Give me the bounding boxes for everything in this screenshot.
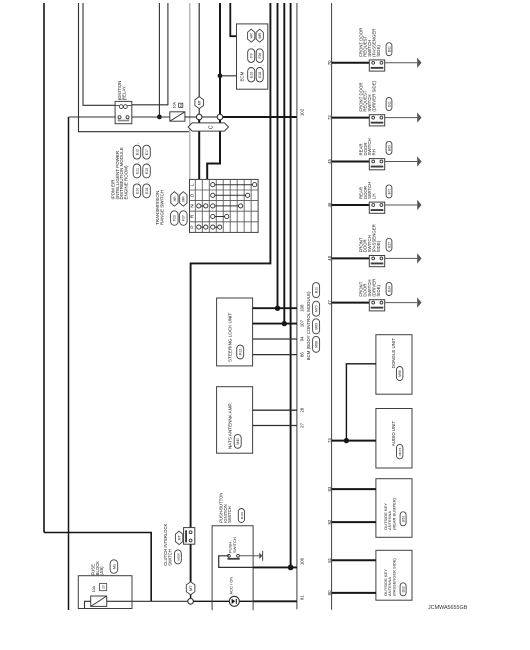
- svg-text:45: 45: [327, 159, 332, 164]
- dongle unit box: [376, 335, 412, 395]
- connector banner C: [188, 123, 228, 131]
- svg-text:SIDE): SIDE): [376, 45, 381, 57]
- svg-text:56: 56: [179, 103, 183, 107]
- outside key antenna (rear bumper) box: [376, 479, 412, 538]
- svg-text:27: 27: [300, 423, 305, 428]
- svg-text:F27: F27: [182, 215, 186, 221]
- wire - left feed bus from top: [43, 3, 45, 533]
- svg-text:B34: B34: [387, 286, 391, 292]
- push-button ignition switch box (open bottom): [212, 526, 253, 611]
- wire - BCM 74 to audio unit: [332, 440, 376, 442]
- IPDM connector E10: [133, 184, 141, 198]
- svg-text:82: 82: [327, 519, 332, 524]
- svg-text:80: 80: [327, 590, 332, 595]
- svg-text:L: L: [190, 183, 195, 186]
- svg-text:47: 47: [327, 300, 332, 305]
- steering lock unit box: [217, 298, 253, 366]
- wire - thick from top to circle C-2: [219, 3, 221, 114]
- wire - steering lock to BCM 86: [253, 354, 297, 356]
- svg-text:NATS ANTENNA AMP.: NATS ANTENNA AMP.: [227, 403, 232, 449]
- ECM box: [237, 24, 268, 89]
- wire - NATS to BCM 27: [253, 425, 297, 427]
- svg-text:,: ,: [316, 334, 321, 335]
- range switch connector HR: [171, 192, 178, 207]
- svg-text:,: ,: [135, 182, 140, 183]
- svg-text:86: 86: [300, 352, 305, 357]
- junction to ECM: [218, 73, 223, 78]
- BCM connector B10: [313, 283, 320, 298]
- wire - steering lock to BCM 94: [253, 338, 297, 340]
- svg-text:,: ,: [181, 208, 186, 209]
- connector M12: [237, 345, 244, 359]
- svg-text:MT: MT: [198, 99, 202, 105]
- svg-text:E10: E10: [135, 188, 139, 194]
- wire - thick line to steering lock pin 107: [283, 3, 285, 324]
- svg-text:MR: MR: [182, 196, 186, 202]
- svg-text:,: ,: [251, 65, 256, 66]
- svg-text:E18: E18: [258, 72, 262, 78]
- svg-text:(REAR BUMPER): (REAR BUMPER): [392, 497, 397, 530]
- wire - NATS to BCM 28: [253, 409, 297, 411]
- svg-text:M12: M12: [239, 349, 243, 356]
- junction on relay contact wire: [157, 115, 162, 120]
- wire - fuse to connector circle: [185, 116, 197, 118]
- wire - BCM 82 to antenna: [332, 521, 376, 523]
- wire - thick C-1 down to range switch: [198, 120, 200, 180]
- wire - BCM 83 to antenna: [332, 488, 376, 490]
- svg-text:74: 74: [327, 438, 332, 443]
- svg-text:SWITCH: SWITCH: [227, 506, 232, 523]
- svg-text:107: 107: [300, 319, 305, 327]
- ECM connector F26: [256, 49, 263, 63]
- hexagon MT: [195, 97, 204, 109]
- fuse 10A #13: [91, 596, 107, 606]
- svg-text:SIDE): SIDE): [376, 240, 381, 252]
- svg-text:M96: M96: [398, 370, 402, 377]
- svg-text:SIDE): SIDE): [376, 284, 381, 296]
- svg-text:E18: E18: [145, 188, 149, 194]
- outside key antenna (passenger side) box: [376, 550, 412, 600]
- svg-text:B53: B53: [402, 516, 406, 522]
- svg-text:D11: D11: [387, 101, 391, 107]
- wire - from top into MT hexagon: [198, 3, 200, 97]
- svg-text:81: 81: [327, 557, 332, 562]
- svg-text:DONGLE UNIT: DONGLE UNIT: [391, 338, 396, 368]
- svg-text:RANGE SWITCH: RANGE SWITCH: [159, 190, 164, 225]
- BCM connector M69: [313, 319, 320, 334]
- fuse number box 56: [179, 103, 183, 107]
- ignition relay box: [115, 101, 132, 123]
- svg-text:(PASSENGER SIDE): (PASSENGER SIDE): [392, 558, 397, 596]
- svg-text:LH: LH: [371, 193, 376, 199]
- wire - push switch actuator arrow: [239, 555, 259, 557]
- connector circle C-1: [196, 114, 202, 120]
- svg-text:RELAY: RELAY: [122, 86, 127, 100]
- svg-text:F9: F9: [250, 53, 254, 57]
- wire - relay coil return to top: [132, 3, 168, 105]
- fuse block box: [78, 576, 132, 609]
- svg-text:BCM (BODY CONTROL MODULE): BCM (BODY CONTROL MODULE): [306, 291, 311, 360]
- ECM connector F9: [248, 49, 255, 63]
- svg-text:HR: HR: [173, 196, 177, 202]
- wire - relay coil feed from top: [83, 3, 116, 105]
- junction: [344, 438, 349, 443]
- BCM (body control module) left edge: [296, 3, 298, 609]
- svg-text:83: 83: [327, 486, 332, 491]
- svg-text:100: 100: [300, 557, 305, 565]
- svg-text:,: ,: [259, 65, 264, 66]
- svg-text:94: 94: [300, 336, 305, 341]
- svg-text:70: 70: [327, 60, 332, 65]
- ECM connector HR: [248, 29, 255, 42]
- junction: [275, 306, 280, 311]
- svg-text:13: 13: [102, 585, 106, 589]
- clutch interlock switch box: [184, 528, 195, 545]
- svg-text:E11: E11: [135, 168, 139, 174]
- wire - clutch switch down to MT hexagon: [190, 544, 192, 582]
- wire - feed to joint on ACC line: [44, 533, 151, 602]
- svg-text:E12: E12: [135, 149, 139, 155]
- wire - branch into ECM (E16): [220, 75, 237, 77]
- svg-text:B27: B27: [387, 242, 391, 248]
- wire - fuse to block bus: [85, 601, 91, 608]
- wire - between connector circles: [202, 116, 217, 118]
- svg-text:F26: F26: [258, 53, 262, 59]
- wire - MT hexagon to joint circle: [190, 595, 192, 599]
- wire - thick line to push switch joint: [290, 3, 292, 567]
- wire - branch from top to relay contact node: [158, 3, 160, 117]
- hexagon MT (lower): [186, 582, 195, 595]
- svg-text:M70: M70: [315, 305, 319, 312]
- wire - push switch to box edge: [219, 556, 253, 568]
- BCM (body control module) right edge: [331, 3, 333, 610]
- wire - bus to relay contact: [69, 116, 116, 118]
- wire - dongle unit joins audio wire: [346, 364, 376, 441]
- svg-text:AUDIO UNIT: AUDIO UNIT: [391, 421, 396, 447]
- svg-text:C: C: [209, 125, 215, 129]
- range switch connector F23: [171, 211, 179, 226]
- range switch connector MR: [180, 192, 187, 207]
- audio unit box: [376, 409, 412, 469]
- svg-text:MR: MR: [258, 33, 262, 39]
- svg-text:,: ,: [251, 46, 256, 47]
- svg-text:STEERING LOCK UNIT: STEERING LOCK UNIT: [227, 313, 232, 362]
- wire - BCM 81 to antenna: [332, 559, 376, 561]
- BCM connector M70: [313, 301, 320, 316]
- wire - BCM 80 to antenna: [332, 592, 376, 594]
- svg-text:10A: 10A: [92, 585, 96, 592]
- ECM connector E16: [248, 68, 255, 82]
- svg-text:,: ,: [316, 298, 321, 299]
- ECM connector MR: [256, 29, 263, 42]
- wire - push switch to BCM 100: [253, 566, 297, 568]
- connector D32: [400, 583, 406, 596]
- IPDM connector E17: [143, 145, 151, 159]
- connector M96: [397, 367, 403, 381]
- svg-text:(J/B): (J/B): [99, 566, 104, 575]
- svg-text:,: ,: [172, 208, 177, 209]
- junction: [282, 321, 287, 326]
- svg-text:B10: B10: [315, 287, 319, 293]
- svg-text:SWITCH: SWITCH: [232, 537, 237, 553]
- svg-text:M69: M69: [315, 323, 319, 330]
- wire - steering lock to BCM 107: [253, 323, 297, 325]
- svg-text:102: 102: [300, 108, 305, 116]
- wire - from top into ECM (HR): [230, 3, 236, 36]
- svg-text:,: ,: [316, 316, 321, 317]
- svg-text:,: ,: [259, 46, 264, 47]
- wire - thick line to steering lock pin 108: [277, 3, 279, 308]
- connector circle on ACC wire: [188, 599, 194, 605]
- fuse 10A #56: [170, 112, 185, 121]
- wire - fuse to ACC/ON lamp (left part): [107, 600, 188, 602]
- connector M40: [234, 434, 241, 448]
- transmission range switch grid: [190, 179, 259, 232]
- IPDM connector E11: [133, 164, 141, 178]
- wire - MT hexagon to circle: [198, 109, 200, 115]
- svg-text:,: ,: [144, 162, 149, 163]
- svg-text:M208: M208: [176, 553, 180, 561]
- svg-text:M101: M101: [240, 511, 244, 519]
- svg-text:JCMWA5655GB: JCMWA5655GB: [428, 605, 468, 611]
- svg-text:,: ,: [135, 143, 140, 144]
- connector M1: [110, 560, 118, 574]
- svg-text:E17: E17: [145, 149, 149, 155]
- svg-text:P: P: [190, 226, 195, 229]
- svg-text:D32: D32: [402, 586, 406, 592]
- wire - steering lock to BCM 108: [253, 307, 297, 309]
- wire - ignition relay output bus down left side: [68, 117, 70, 610]
- wire - to BCM 91: [253, 600, 297, 602]
- junction: [288, 565, 294, 571]
- svg-text:91: 91: [300, 595, 305, 600]
- connector M208: [175, 550, 182, 564]
- push switch contacts: [228, 554, 231, 557]
- svg-text:ACC / ON: ACC / ON: [228, 577, 233, 595]
- hexagon MT (clutch): [175, 531, 182, 545]
- svg-text:(DRIVER SIDE): (DRIVER SIDE): [371, 80, 376, 111]
- wire - gray line from top to range switch: [189, 3, 191, 179]
- wire - thick feed to BCM pin 102: [223, 116, 297, 118]
- svg-text:N: N: [190, 204, 195, 207]
- svg-text:MT: MT: [178, 535, 182, 540]
- connector M101: [238, 509, 244, 523]
- svg-text:B71: B71: [387, 188, 391, 194]
- svg-text:SWITCH: SWITCH: [168, 549, 173, 566]
- svg-text:108: 108: [300, 304, 305, 312]
- wire - ACC wire through ignition switch box: [193, 600, 229, 602]
- range switch connector F27: [180, 211, 188, 226]
- wire - thick C-2 down to range switch: [207, 120, 220, 180]
- svg-text:48: 48: [327, 255, 332, 260]
- connector circle C-2: [217, 114, 223, 120]
- svg-text:28: 28: [300, 407, 305, 412]
- relay coil: [116, 105, 132, 107]
- relay contact: [118, 116, 121, 119]
- svg-text:E15: E15: [145, 168, 149, 174]
- wire - thick line to clutch interlock switch: [191, 3, 271, 528]
- ECM connector E18: [256, 68, 263, 82]
- grid contact circles and links: [211, 183, 215, 187]
- connector M173: [397, 444, 403, 459]
- svg-text:M1: M1: [112, 564, 116, 569]
- svg-text:HR: HR: [250, 33, 254, 39]
- svg-text:M173: M173: [398, 447, 402, 455]
- svg-text:M68: M68: [315, 341, 319, 348]
- BCM connector M68: [313, 336, 320, 352]
- svg-text:RH: RH: [371, 149, 376, 155]
- svg-text:B63: B63: [387, 145, 391, 151]
- svg-text:,: ,: [135, 162, 140, 163]
- svg-text:72: 72: [327, 115, 332, 120]
- svg-text:46: 46: [327, 202, 332, 207]
- IPDM connector E15: [143, 164, 151, 178]
- NATS antenna amp box: [217, 387, 253, 454]
- svg-text:,: ,: [144, 182, 149, 183]
- ACC/ON indicator: [229, 596, 239, 606]
- svg-text:ECM: ECM: [240, 71, 245, 81]
- wire - ACC lamp to box edge: [239, 600, 253, 602]
- IPDM connector E18: [143, 184, 151, 198]
- wire - from top, joins gray line: [79, 3, 189, 132]
- svg-text:10A: 10A: [173, 102, 177, 109]
- IPDM connector E12: [133, 145, 141, 159]
- svg-text:F23: F23: [173, 215, 177, 221]
- svg-text:M40: M40: [236, 438, 240, 445]
- svg-text:D31: D31: [387, 46, 391, 52]
- svg-text:MT: MT: [189, 585, 193, 591]
- svg-text:E16: E16: [250, 72, 254, 78]
- wire - relay contact to fuse: [132, 116, 170, 118]
- fuse number box 13: [100, 584, 107, 591]
- svg-text:ENGINE ROOM): ENGINE ROOM): [124, 165, 129, 200]
- connector B53: [400, 512, 406, 526]
